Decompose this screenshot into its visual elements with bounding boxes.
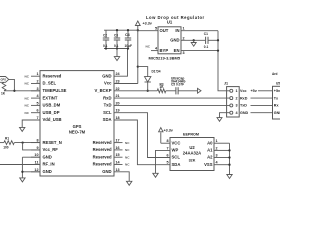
GPS pin 24 GND label [102, 72, 120, 78]
label UltraCap [171, 76, 184, 80]
wire EEPROM WP to ground [156, 150, 171, 173]
svg-text:NC: NC [25, 111, 30, 115]
svg-text:NC: NC [125, 148, 130, 152]
EEPROM pin 2 A1 [207, 146, 229, 152]
wire U1 EN to +5v vertical [181, 50, 218, 52]
wire TxD to right header [251, 104, 273, 106]
svg-text:17: 17 [116, 139, 120, 143]
svg-text:U1: U1 [167, 20, 173, 25]
GPS pin 14 Reserved (NC) [93, 161, 131, 167]
wire R3 to C5 [166, 90, 176, 92]
bypass caps bottom rail [104, 48, 128, 50]
svg-text:Reserved: Reserved [93, 140, 112, 145]
svg-text:RF_IN: RF_IN [43, 162, 55, 167]
svg-text:7: 7 [166, 146, 168, 150]
wire +3.3v vertical rail [137, 30, 139, 83]
wire GND to right header [251, 112, 273, 114]
U1 pin 1 IN label [175, 27, 184, 33]
EEPROM pin 6 SCL [166, 154, 180, 160]
svg-text:3: 3 [36, 87, 38, 91]
label D1 [152, 70, 161, 74]
EEPROM pin 5 SDA [166, 161, 180, 167]
GPS label [73, 124, 82, 129]
GPS pin 15 Reserved (NC) [93, 153, 131, 159]
label C3 [114, 34, 118, 38]
svg-text:GND: GND [274, 111, 280, 115]
ground symbol for GPS pin 13 [127, 181, 132, 185]
ground symbol EEPROM bus [227, 175, 232, 179]
capacitor C2 [103, 30, 109, 49]
label R1 [5, 137, 9, 141]
svg-text:Vdd_USB: Vdd_USB [43, 117, 62, 122]
node +5v/C1 junction [217, 39, 219, 41]
EEPROM 24AA32A label [183, 150, 201, 155]
svg-text:NC: NC [25, 96, 30, 100]
svg-text:24: 24 [116, 72, 121, 76]
svg-text:15: 15 [116, 153, 120, 157]
svg-text:1: 1 [183, 27, 185, 31]
svg-text:GND: GND [102, 73, 111, 78]
svg-text:GND: GND [170, 38, 179, 43]
svg-text:+5v: +5v [274, 89, 280, 93]
power +3.3v arrow for EEPROM [159, 128, 163, 144]
GPS pin 22 V_BCKP label [95, 87, 120, 93]
svg-text:TIMEPULSE: TIMEPULSE [43, 88, 67, 93]
svg-text:NC: NC [125, 141, 130, 145]
svg-text:EN: EN [174, 48, 180, 53]
svg-text:0.1: 0.1 [114, 44, 119, 48]
J1 pin 3 TxD [230, 104, 248, 108]
svg-text:4: 4 [236, 111, 239, 115]
svg-text:C4: C4 [125, 33, 131, 37]
svg-text:GND: GND [102, 169, 111, 174]
capacitor C5 UltraCap [176, 87, 178, 94]
wire vertical joining pins 10 and 12 GND [21, 157, 23, 178]
svg-text:Ard: Ard [272, 72, 278, 76]
svg-text:7: 7 [36, 116, 38, 120]
svg-text:23: 23 [116, 80, 120, 84]
svg-text:GND: GND [43, 169, 52, 174]
svg-text:20: 20 [116, 101, 120, 105]
GPS pin 2 D_SEL (NC) [25, 80, 57, 86]
label +3.3v at EEPROM [164, 128, 174, 132]
svg-text:C5 0.07F: C5 0.07F [171, 83, 184, 87]
node U1 GND junction [193, 39, 195, 41]
svg-text:RxD: RxD [240, 96, 248, 100]
wire TIMEPULSE to GPS pin 3 [4, 90, 40, 92]
node A2 junction [228, 156, 230, 158]
svg-text:10: 10 [34, 153, 38, 157]
EEPROM pin 1 A0 [207, 139, 229, 145]
svg-text:1K: 1K [159, 85, 164, 89]
GPS pin 7 Vdd_USB [31, 116, 62, 122]
ground symbol below pins 10/12 [20, 178, 25, 182]
svg-text:Reserved: Reserved [43, 73, 62, 78]
svg-text:GND: GND [240, 111, 249, 115]
svg-text:SDA: SDA [103, 117, 112, 122]
svg-text:6: 6 [36, 109, 38, 113]
svg-text:NC: NC [125, 163, 130, 167]
wire SCL from GPS pin 19 to EEPROM [114, 113, 170, 158]
svg-text:C1: C1 [204, 32, 208, 36]
svg-text:GPS: GPS [1, 78, 7, 82]
svg-text:USB_DP: USB_DP [43, 110, 60, 115]
ground symbol J1 [217, 118, 222, 122]
label C4 value [125, 44, 132, 48]
label MIC5219-3.3BM5 [149, 55, 181, 60]
svg-text:TxD: TxD [104, 103, 112, 108]
svg-text:IN: IN [175, 28, 179, 33]
wire EEPROM address bus to ground [229, 143, 231, 174]
svg-text:OUT: OUT [160, 28, 169, 33]
svg-text:EXTINT: EXTINT [43, 95, 58, 100]
GPS pin 8 RESET_N [31, 139, 62, 145]
GPS pin 19 SCL label [103, 109, 119, 115]
Arduino pin GND [274, 111, 283, 115]
svg-text:A1: A1 [207, 148, 213, 153]
NEO-7M label [69, 129, 86, 134]
EEPROM 32K label [189, 158, 196, 162]
svg-text:14: 14 [116, 161, 121, 165]
GPS pin 13 GND label [102, 168, 119, 174]
resistor R3 [157, 89, 166, 93]
svg-text:NC: NC [25, 74, 30, 78]
svg-text:V_BCKP: V_BCKP [95, 88, 112, 93]
wire GPS pin 12 GND [22, 171, 40, 173]
Arduino header box (cut off at edge) [273, 86, 282, 119]
EEPROM pin 7 WP [166, 146, 178, 152]
wire RF_IN from left edge to GPS pin 11 [0, 164, 40, 166]
node +3.3v rail top junction [137, 29, 139, 31]
wire GPS pin 13 GND to ground [114, 172, 129, 182]
GPS pin 18 SDA label [103, 116, 120, 122]
svg-text:18: 18 [116, 116, 120, 120]
svg-text:22: 22 [116, 87, 120, 91]
svg-text:NEO-7M: NEO-7M [69, 129, 86, 134]
label C1 value [204, 45, 209, 49]
svg-text:J1: J1 [224, 82, 228, 86]
wire +5v vertical rail [218, 31, 230, 91]
capacitor C4 [125, 29, 131, 50]
svg-text:100: 100 [3, 145, 9, 149]
svg-text:A2: A2 [207, 155, 213, 160]
label C4 [125, 33, 131, 37]
J1 pin 2 RxD [230, 96, 248, 100]
label C2 [103, 34, 107, 38]
ground stub U1 [193, 40, 195, 42]
svg-text:Reserved: Reserved [93, 162, 112, 167]
node junction GND pin12 [21, 171, 23, 173]
svg-text:C3: C3 [114, 34, 118, 38]
label +3.3v at U1 OUT [143, 22, 153, 26]
wire C1 to +5v vertical [208, 39, 218, 41]
wire TxD from GPS pin 20 to J1 pin 3 [114, 104, 230, 106]
label EEPROM [183, 132, 199, 136]
EEPROM U2 box [170, 138, 214, 171]
svg-text:Reserved: Reserved [93, 154, 112, 159]
U1 pin 3 EN label [174, 48, 185, 55]
wire from X1 tip to TIMEPULSE net [9, 79, 15, 90]
EEPROM pin 8 VCC [166, 139, 180, 145]
U1 pin 5 OUT label [155, 27, 169, 33]
connector J1 box [227, 87, 240, 117]
svg-text:1: 1 [216, 139, 218, 143]
GPS pin 12 GND [31, 168, 52, 174]
J1 pin 4 GND [230, 111, 249, 115]
svg-text:1: 1 [36, 72, 38, 76]
wire +3.3v to EEPROM VCC [161, 142, 170, 144]
svg-text:R1: R1 [5, 137, 9, 141]
svg-text:10uF: 10uF [125, 44, 132, 48]
svg-text:16: 16 [116, 146, 120, 150]
GPS pin 6 USB_DP (NC) [25, 109, 60, 115]
svg-text:4: 4 [216, 161, 219, 165]
wire J1 GND to ground [220, 113, 230, 118]
svg-text:RxD: RxD [103, 95, 111, 100]
GPS pin 9 Vcc_RF [31, 146, 58, 152]
label C1 [204, 32, 208, 36]
svg-text:0.1: 0.1 [103, 44, 108, 48]
EEPROM pin 4 VSS [204, 161, 229, 167]
svg-text:D_SEL: D_SEL [43, 81, 57, 86]
svg-text:4: 4 [155, 47, 158, 51]
ground stub below caps [116, 49, 118, 57]
wire GPS pin 10 GND to vertical [22, 156, 40, 158]
svg-text:D1’D4: D1’D4 [152, 70, 161, 74]
svg-text:SCL: SCL [172, 155, 181, 160]
wire diode branch [138, 67, 148, 91]
svg-text:U5: U5 [276, 81, 280, 85]
svg-text:SCL: SCL [103, 110, 112, 115]
svg-text:3: 3 [183, 51, 185, 55]
svg-text:WP: WP [172, 148, 179, 153]
svg-text:USB_DM: USB_DM [43, 103, 61, 108]
wire SDA from GPS pin 18 to EEPROM [114, 120, 170, 165]
label R3 value 1K [159, 85, 164, 89]
svg-text:1: 1 [236, 89, 238, 93]
svg-text:Rx: Rx [274, 104, 280, 108]
net arrow V_BCKP out [198, 88, 202, 93]
svg-text:VCC: VCC [172, 140, 181, 145]
label R3 [159, 82, 163, 86]
EEPROM U2 label [189, 145, 195, 150]
GPS pin 23 Vcc label [104, 80, 120, 86]
GPS pin 16 Reserved (NC) [93, 146, 131, 152]
svg-text:TxD: TxD [240, 104, 247, 108]
svg-text:MIC5219-3.3BM5: MIC5219-3.3BM5 [149, 55, 181, 60]
svg-text:24AA32A: 24AA32A [183, 150, 201, 155]
wire GPS pin 24 GND up to bypass-cap rail [114, 49, 128, 77]
GPS pin 5 USB_DM (NC) [25, 101, 61, 107]
label R1 value 100 [3, 145, 9, 149]
wire R1 to GPS pin 8 RESET_N [0, 142, 40, 144]
svg-text:32K: 32K [189, 158, 196, 162]
svg-text:VSS: VSS [204, 162, 213, 167]
svg-text:2: 2 [216, 146, 218, 150]
J1 pin 1 Vcc [230, 89, 247, 93]
GPS pin 17 Reserved (NC) [93, 139, 131, 145]
svg-text:A0: A0 [207, 140, 213, 145]
svg-text:NC: NC [146, 44, 151, 48]
svg-text:5: 5 [166, 161, 168, 165]
node junction V_BCKP/diode [147, 90, 149, 92]
GPS pin 4 EXTINT (NC) [25, 94, 58, 100]
power +3.3v arrow at U1 OUT [135, 21, 140, 30]
svg-text:2: 2 [236, 96, 238, 100]
svg-text:+3.3v: +3.3v [143, 22, 153, 26]
ground symbol for Vdd_USB [20, 127, 25, 131]
wire U1 GND to C1 [181, 39, 205, 41]
svg-text:8: 8 [166, 139, 168, 143]
svg-text:NC: NC [25, 104, 30, 108]
capacitor C3 [114, 29, 120, 50]
svg-text:Reserved: Reserved [93, 147, 112, 152]
U1 pin 4 BYP label (NC) [146, 44, 169, 53]
svg-text:NC: NC [125, 155, 130, 159]
label +5v at J1 [251, 89, 258, 93]
regulator U1 box [158, 27, 181, 54]
svg-text:C2: C2 [103, 34, 107, 38]
GPS pin 20 TxD label [104, 101, 120, 107]
svg-text:U2: U2 [189, 145, 195, 150]
capacitor C1 [206, 37, 208, 44]
GPS pin 11 RF_IN [31, 161, 55, 167]
label Arduino (cut off) [272, 72, 278, 76]
svg-text:21: 21 [116, 94, 120, 98]
svg-text:GND: GND [43, 154, 52, 159]
node junction RESET_N/Vcc_RF [21, 141, 23, 143]
Arduino pin +5v [274, 89, 281, 93]
EEPROM pin 3 A2 [207, 154, 229, 160]
svg-text:3: 3 [236, 104, 238, 108]
svg-text:6: 6 [166, 154, 168, 158]
wire +3.3v rail to U1 OUT [138, 30, 158, 32]
wire U1 IN to +5v vertical [181, 30, 218, 32]
svg-text:0.1: 0.1 [204, 45, 209, 49]
svg-text:2: 2 [36, 80, 38, 84]
label XH414HG [171, 80, 186, 84]
node +3.3v diode tap junction [137, 65, 139, 67]
GPS pin 21 RxD label [103, 94, 120, 100]
svg-text:2: 2 [183, 36, 185, 40]
connector X1 (antenna/test-point tag, cut off at left edge) [0, 77, 9, 83]
svg-text:Tx: Tx [274, 96, 279, 100]
svg-text:Vcc: Vcc [240, 89, 247, 93]
diode D1 (to V_BCKP) [145, 77, 151, 82]
node +5v/EN junction [217, 49, 219, 51]
svg-text:11: 11 [35, 161, 39, 165]
svg-text:SDA: SDA [172, 162, 181, 167]
svg-text:5: 5 [155, 27, 157, 31]
Arduino pin Tx [274, 96, 279, 100]
svg-text:NC: NC [25, 82, 30, 86]
ground symbol U1 [191, 43, 196, 47]
connector J1 label [224, 82, 228, 86]
svg-text:4: 4 [36, 94, 39, 98]
svg-text:BYP: BYP [160, 48, 169, 53]
GPS pin 3 TIMEPULSE [31, 87, 67, 93]
label C5 0.07F [171, 83, 184, 87]
wire +5v to right header [258, 90, 273, 92]
GPS module NEO-7M box [40, 71, 114, 176]
title Low Drop out Regulator [146, 15, 205, 20]
svg-text:Vcc: Vcc [104, 81, 112, 86]
wire C5 to arrow [178, 90, 197, 92]
label C2 value [103, 44, 108, 48]
label U5 [276, 81, 280, 85]
resistor R1 [4, 141, 14, 145]
node A1 junction [228, 149, 230, 151]
bypass caps top rail [104, 29, 138, 31]
svg-text:Low Drop out Regulator: Low Drop out Regulator [146, 15, 205, 20]
svg-text:EEPROM: EEPROM [183, 132, 199, 136]
label C3 value [114, 44, 119, 48]
svg-text:GPS: GPS [73, 124, 82, 129]
wire GPS pin 22 V_BCKP to R3 [114, 90, 157, 92]
node junction TIMEPULSE [13, 90, 15, 92]
svg-text:+5v: +5v [251, 89, 258, 93]
node VSS junction [228, 164, 230, 166]
svg-text:13: 13 [116, 168, 120, 172]
svg-text:19: 19 [116, 109, 120, 113]
svg-text:12: 12 [34, 168, 38, 172]
ground symbol EEPROM WP [153, 173, 158, 177]
ground symbol below caps [114, 57, 119, 61]
GPS pin 10 GND [31, 153, 52, 159]
GPS pin 1 Reserved (NC) [25, 72, 62, 78]
U1 pin 2 GND label [170, 36, 184, 42]
wire RxD to right header [251, 97, 273, 99]
wire GPS pin 7 Vdd_USB to ground [22, 120, 40, 127]
wire GPS pin 23 Vcc to +3.3v rail [114, 83, 138, 85]
svg-text:RESET_N: RESET_N [43, 140, 62, 145]
resistor R2 (vertical, below X1) [2, 82, 6, 91]
svg-text:9: 9 [36, 146, 38, 150]
Arduino pin Rx [274, 104, 280, 108]
wire junction down to GPS pin 9 Vcc_RF [23, 143, 40, 150]
op-amp U1 label [167, 20, 173, 25]
svg-text:8: 8 [36, 139, 38, 143]
wire RxD from GPS pin 21 to J1 pin 2 [114, 97, 230, 99]
label R2 value [1, 92, 6, 96]
svg-text:3: 3 [216, 154, 218, 158]
svg-text:Vcc_RF: Vcc_RF [43, 147, 59, 152]
svg-text:5: 5 [36, 101, 38, 105]
svg-text:+3.3v: +3.3v [164, 128, 174, 132]
svg-text:1K: 1K [1, 92, 6, 96]
